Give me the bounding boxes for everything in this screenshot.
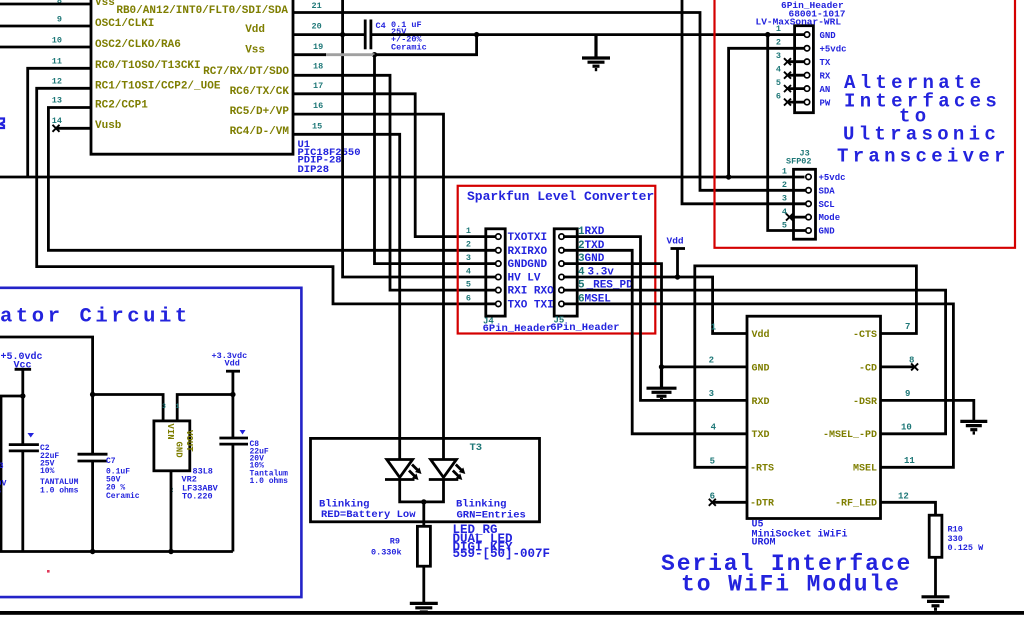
svg-text:2: 2 bbox=[776, 38, 781, 48]
wire U5 pin12 RF_LED to R10 bbox=[881, 502, 936, 515]
svg-text:R10: R10 bbox=[948, 525, 963, 535]
C2 polarity mark bbox=[28, 433, 35, 438]
svg-text:C7: C7 bbox=[106, 457, 116, 466]
svg-text:11: 11 bbox=[52, 57, 62, 67]
wire J5 pin5 _RES_PD to U5 pin10 bbox=[563, 290, 946, 434]
C4 value labels bbox=[376, 20, 427, 53]
junction rail C7 bbox=[90, 549, 95, 554]
svg-text:-MSEL_-PD: -MSEL_-PD bbox=[823, 430, 877, 441]
svg-text:6: 6 bbox=[466, 293, 471, 303]
svg-text:Vdd: Vdd bbox=[245, 24, 265, 36]
junction VIN rail bbox=[90, 392, 95, 397]
svg-text:Sparkfun Level Converter: Sparkfun Level Converter bbox=[467, 189, 654, 204]
svg-text:20: 20 bbox=[312, 22, 322, 32]
svg-text:3: 3 bbox=[776, 51, 781, 61]
label Alternate Interfaces to Ultrasonic Transceiver bbox=[837, 72, 1010, 168]
red origin dot bbox=[47, 570, 50, 573]
J4 pin number labels bbox=[466, 226, 471, 303]
X marks J2 pins 3-6 bbox=[784, 58, 791, 105]
svg-text:1: 1 bbox=[782, 167, 787, 177]
svg-text:1: 1 bbox=[466, 226, 471, 236]
X mark CD bbox=[911, 363, 918, 370]
resistor R10 bbox=[929, 515, 942, 557]
IC U5 MiniSocket iWiFi body bbox=[747, 316, 881, 518]
svg-text:12: 12 bbox=[52, 77, 62, 87]
svg-text:13: 13 bbox=[52, 96, 62, 106]
wire +5vdc long row to J3 pin1 bbox=[0, 176, 805, 179]
svg-text:2: 2 bbox=[782, 180, 787, 190]
svg-text:VIN: VIN bbox=[165, 424, 175, 440]
svg-text:RC7/RX/DT/SDO: RC7/RX/DT/SDO bbox=[203, 66, 289, 78]
ground rail bottom bbox=[0, 550, 233, 553]
red group box level converter bbox=[458, 186, 656, 334]
connector J3 body bbox=[794, 169, 816, 239]
svg-text:RC1/T1OSI/CCP2/_UOE: RC1/T1OSI/CCP2/_UOE bbox=[95, 80, 221, 92]
J2 pin name labels bbox=[820, 31, 847, 109]
capacitor C4 plates bbox=[365, 20, 371, 50]
junction rail VR2 bbox=[168, 549, 173, 554]
blue group box regulator circuit bbox=[0, 288, 301, 597]
label Serial Interface to WiFi Module bbox=[661, 551, 912, 598]
wire VOUT rail bbox=[177, 395, 233, 421]
wire U1 pin11 RC0 net to +5vdc row bbox=[28, 68, 91, 177]
svg-text:SCL: SCL bbox=[819, 200, 835, 210]
wire VIN rail bbox=[93, 395, 164, 421]
capacitor C8 plates bbox=[219, 438, 248, 444]
svg-text:4: 4 bbox=[711, 423, 717, 433]
svg-text:.3: .3 bbox=[0, 462, 4, 471]
J2 name labels bbox=[756, 0, 846, 28]
left edge cut text fragments bbox=[0, 462, 7, 496]
svg-text:GRN=Entries: GRN=Entries bbox=[457, 510, 526, 522]
svg-text:-DTR: -DTR bbox=[750, 499, 774, 510]
wire U1 pin18 RX to J4 pin5 bbox=[293, 75, 496, 290]
red group box Alternate Interfaces bbox=[715, 0, 1016, 248]
no-connect X on pin14 bbox=[53, 125, 60, 132]
left edge blue net label fragment bbox=[0, 119, 4, 129]
wire C8 to rail bbox=[231, 444, 234, 551]
wire along left edge bbox=[0, 396, 2, 552]
C2 labels bbox=[40, 444, 79, 496]
junction +5v row to J2 pin2 drop bbox=[726, 174, 731, 179]
J3 pin number labels bbox=[782, 167, 787, 231]
J5 pin circles bbox=[559, 234, 564, 307]
svg-text:1: 1 bbox=[776, 24, 781, 34]
svg-text:.0V: .0V bbox=[0, 480, 7, 489]
svg-text:RC2/CCP1: RC2/CCP1 bbox=[95, 100, 148, 112]
svg-text:T3: T3 bbox=[470, 442, 483, 454]
junction GND row to J3 pin5 drop bbox=[765, 32, 770, 37]
wire U1 pin19 Vss stub bbox=[293, 53, 326, 56]
svg-text:Vss: Vss bbox=[245, 44, 265, 56]
svg-text:5: 5 bbox=[776, 78, 781, 88]
svg-text:-DSR: -DSR bbox=[853, 397, 877, 408]
svg-text:-CTS: -CTS bbox=[853, 330, 877, 341]
svg-text:1.0 ohms: 1.0 ohms bbox=[40, 487, 79, 496]
wire U1 pin13 RC2 to J4 pin2 bbox=[48, 108, 496, 251]
power symbol +5.0vdc Vcc bbox=[1, 351, 43, 445]
wire U1 pin20 Vdd to C4 bbox=[293, 33, 365, 36]
svg-text:7: 7 bbox=[905, 322, 910, 332]
svg-text:10: 10 bbox=[901, 423, 912, 433]
LED D-red symbol bbox=[385, 460, 422, 481]
svg-text:5: 5 bbox=[710, 457, 715, 467]
svg-text:2: 2 bbox=[709, 356, 714, 366]
J5 pin name labels bbox=[578, 226, 633, 305]
svg-text:3: 3 bbox=[709, 389, 714, 399]
connector J4 body bbox=[486, 229, 505, 316]
wire U1 pin14 Vusb stub bbox=[56, 127, 91, 130]
svg-text:18: 18 bbox=[313, 62, 323, 72]
svg-text:RC6/TX/CK: RC6/TX/CK bbox=[230, 86, 290, 98]
svg-text:6: 6 bbox=[776, 92, 781, 102]
wire U1 pin8 Vss to left edge bbox=[0, 3, 91, 6]
junction VOUT rail at Vdd bbox=[230, 392, 235, 397]
svg-text:12: 12 bbox=[898, 492, 909, 502]
LED D-green symbol bbox=[429, 460, 466, 481]
svg-text:SFP02: SFP02 bbox=[786, 157, 812, 167]
wire GND drop to J3 pin5 bbox=[768, 35, 806, 231]
wire U5 pin9 DSR to ground bbox=[881, 400, 974, 421]
wire U1 pin15 RC4 to LED1 bbox=[293, 134, 400, 459]
J3 pin name labels bbox=[819, 173, 846, 237]
wire R9 to ground bbox=[422, 566, 425, 603]
svg-text:PW: PW bbox=[820, 99, 831, 109]
svg-text:-CD: -CD bbox=[859, 363, 877, 374]
svg-text:RB0/AN12/INT0/FLT0/SDI/SDA: RB0/AN12/INT0/FLT0/SDI/SDA bbox=[116, 5, 288, 17]
svg-text:+5vdc: +5vdc bbox=[820, 45, 847, 55]
ground symbol below U5 GND bbox=[647, 367, 677, 400]
svg-text:-RF_LED: -RF_LED bbox=[835, 499, 877, 510]
wire Vdd rail vertical to J4 pin4 HV bbox=[343, 0, 496, 277]
VR2 rotated pin labels bbox=[165, 424, 194, 459]
svg-text:UROM: UROM bbox=[752, 538, 776, 549]
J2 no-connect stubs pins 3-6 bbox=[788, 60, 805, 63]
svg-text:GND: GND bbox=[819, 227, 836, 237]
svg-text:5: 5 bbox=[782, 221, 787, 231]
VR2 tiny pin numbers bbox=[162, 403, 180, 494]
svg-text:RED=Battery Low: RED=Battery Low bbox=[321, 509, 416, 521]
wire C7 to rail bbox=[91, 461, 94, 552]
svg-text:6Pin_Header: 6Pin_Header bbox=[550, 322, 619, 334]
svg-text:Vdd: Vdd bbox=[752, 329, 770, 341]
svg-text:R9: R9 bbox=[390, 537, 400, 547]
J3 no-connect stub pin4 bbox=[790, 216, 807, 219]
svg-text:OSC1/CLKI: OSC1/CLKI bbox=[95, 18, 154, 30]
svg-text:to WiFi Module: to WiFi Module bbox=[681, 572, 901, 598]
U5 pin name labels bbox=[750, 329, 877, 510]
svg-text:TXD: TXD bbox=[752, 430, 770, 441]
svg-text:0.330k: 0.330k bbox=[371, 548, 402, 558]
U5 pin numbers bbox=[709, 322, 916, 502]
svg-text:10: 10 bbox=[52, 36, 62, 46]
R10 labels bbox=[948, 525, 985, 554]
wire common to R9 bbox=[422, 502, 425, 526]
svg-text:Transceiver: Transceiver bbox=[837, 146, 1010, 168]
svg-text:LV-MaxSonar-WRL: LV-MaxSonar-WRL bbox=[756, 17, 842, 28]
svg-text:Vdd: Vdd bbox=[667, 236, 684, 247]
resistor R9 bbox=[417, 526, 430, 566]
svg-text:19: 19 bbox=[313, 42, 323, 52]
ground symbol right of U5 bbox=[960, 421, 987, 433]
U5 name labels bbox=[752, 520, 848, 549]
svg-text:-RTS: -RTS bbox=[750, 464, 774, 475]
wire C2 to rail bbox=[21, 451, 24, 552]
ground symbol below R9 bbox=[410, 603, 438, 612]
svg-text:1: 1 bbox=[176, 403, 180, 410]
junction Vss node bbox=[372, 52, 377, 57]
svg-text:AN: AN bbox=[820, 85, 831, 95]
svg-text:3: 3 bbox=[466, 253, 471, 263]
svg-text:RXIRXO: RXIRXO bbox=[508, 246, 548, 258]
U1 pin numbers right bbox=[312, 1, 324, 132]
wire GND row from C4 to J2 pin1 bbox=[371, 33, 805, 36]
svg-text:TXO TXI: TXO TXI bbox=[508, 299, 554, 311]
svg-text:C4: C4 bbox=[376, 21, 386, 31]
svg-text:11: 11 bbox=[904, 456, 915, 466]
svg-text:5: 5 bbox=[466, 280, 471, 290]
svg-text:VOUT: VOUT bbox=[184, 430, 194, 452]
wire U1 pin10 OSC2 to left edge bbox=[0, 46, 91, 49]
svg-text:+5vdc: +5vdc bbox=[819, 173, 846, 183]
X mark J3 pin4 bbox=[786, 214, 793, 221]
wire Vss vertical to J4 pin3 GND bbox=[375, 55, 497, 264]
svg-text:OSC2/CLKO/RA6: OSC2/CLKO/RA6 bbox=[95, 39, 181, 51]
wire GND jog down to Vss row bbox=[375, 35, 477, 55]
wire J5 pin1 RXD to U5 pin3 bbox=[563, 237, 747, 401]
J3 pin circles bbox=[806, 174, 811, 233]
svg-text:9: 9 bbox=[905, 389, 910, 399]
svg-text:10%: 10% bbox=[40, 467, 55, 476]
C8 labels bbox=[250, 440, 289, 486]
svg-text:GND: GND bbox=[174, 442, 184, 459]
svg-text:1.0 ohms: 1.0 ohms bbox=[250, 477, 289, 486]
svg-text:Ceramic: Ceramic bbox=[391, 43, 427, 53]
svg-text:MSEL: MSEL bbox=[853, 464, 877, 475]
C8 plus mark bbox=[240, 430, 246, 435]
ground symbol near C4 bbox=[582, 35, 610, 70]
wire J5 pin2 TXD to U5 pin4 bbox=[563, 250, 747, 433]
X mark DTR bbox=[709, 499, 716, 506]
ground symbol below R10 bbox=[922, 597, 950, 609]
svg-text:0.125 W: 0.125 W bbox=[948, 543, 985, 553]
svg-text:Ultrasonic: Ultrasonic bbox=[843, 124, 1000, 146]
svg-text:4: 4 bbox=[782, 207, 787, 217]
wire Vcc feed from left bbox=[0, 337, 93, 454]
svg-text:RX: RX bbox=[820, 72, 831, 82]
svg-text:GND: GND bbox=[752, 363, 770, 374]
svg-text:Vdd: Vdd bbox=[225, 359, 240, 369]
wire Vss gray segment bbox=[325, 53, 375, 56]
svg-text:1: 1 bbox=[711, 323, 717, 333]
svg-text:2: 2 bbox=[466, 240, 471, 250]
svg-text:DIP28: DIP28 bbox=[298, 164, 330, 176]
wire J5 pin6 MSEL to U5 pin11 bbox=[563, 304, 953, 467]
wire U1 pin21 SDA to J3 pin2 bbox=[293, 13, 806, 191]
LED part labels bbox=[453, 523, 551, 561]
power symbol +3.3vdc Vdd bbox=[212, 351, 248, 438]
wire RTS-CTS jumper bbox=[695, 266, 917, 467]
J2 pin circles bbox=[804, 32, 809, 105]
svg-text:RC0/T1OSO/T13CKI: RC0/T1OSO/T13CKI bbox=[95, 60, 201, 72]
svg-text:559-[50]-007F: 559-[50]-007F bbox=[453, 547, 551, 561]
svg-text:RC4/D-/VM: RC4/D-/VM bbox=[230, 126, 290, 138]
wire stub from left edge to Vcc bbox=[0, 395, 23, 398]
junction Vcc stem bbox=[20, 393, 25, 398]
svg-text:GND: GND bbox=[820, 31, 837, 41]
svg-text:Ceramic: Ceramic bbox=[106, 492, 140, 501]
svg-text:16: 16 bbox=[313, 101, 323, 111]
wire +5vdc drop up to J2 pin2 bbox=[729, 48, 805, 177]
wire SCL vertical to J3 pin3 bbox=[682, 0, 806, 204]
wire VR2 GND pin down bbox=[170, 471, 173, 552]
wire U1 pin17 TX to J4 pin1 bbox=[293, 94, 496, 237]
svg-text:SDA: SDA bbox=[819, 186, 836, 196]
Vdd power symbol bbox=[667, 236, 686, 278]
connector J2 6Pin_Header body bbox=[795, 26, 814, 113]
svg-text:3: 3 bbox=[782, 194, 787, 204]
connector J5 body bbox=[554, 229, 577, 316]
wire LED cathodes common bbox=[400, 480, 444, 502]
svg-text:RXD: RXD bbox=[752, 397, 770, 408]
U1 pin numbers left bbox=[52, 0, 62, 126]
junction GND row corner bbox=[474, 32, 479, 37]
U1 name/value label bbox=[298, 139, 361, 176]
wire J5 pin3 GND to U5 pin2 and ground bbox=[563, 264, 747, 367]
J2 pin number labels bbox=[776, 24, 781, 102]
junction Vdd x C4 row bbox=[340, 32, 345, 37]
svg-text:TXOTXI: TXOTXI bbox=[508, 232, 548, 244]
svg-text:HV LV: HV LV bbox=[508, 273, 541, 285]
svg-text:ator Circuit: ator Circuit bbox=[0, 306, 191, 329]
wire U5 pin6 DTR stub bbox=[712, 501, 747, 504]
junction Vdd symbol node bbox=[675, 274, 680, 279]
svg-text:TX: TX bbox=[820, 58, 831, 68]
J4 pin circles bbox=[496, 234, 501, 307]
svg-text:TO.220: TO.220 bbox=[182, 492, 213, 502]
svg-text:9: 9 bbox=[57, 15, 62, 25]
svg-text:Mode: Mode bbox=[819, 213, 841, 223]
junction LED common bbox=[421, 499, 426, 504]
svg-text:21: 21 bbox=[312, 1, 322, 11]
svg-text:Vusb: Vusb bbox=[95, 120, 122, 132]
frame border bottom bbox=[0, 611, 1024, 615]
regulator VR2 body bbox=[154, 421, 190, 471]
wire U1 pin16 RC5 to LED2 bbox=[293, 114, 444, 459]
svg-text:15: 15 bbox=[312, 122, 322, 132]
wire U1 pin9 OSC1 to left edge bbox=[0, 25, 91, 28]
capacitor C2 plates bbox=[9, 445, 39, 451]
svg-text:Vss: Vss bbox=[95, 0, 115, 9]
svg-text:RC5/D+/VP: RC5/D+/VP bbox=[230, 106, 290, 118]
svg-text:4: 4 bbox=[466, 266, 471, 276]
capacitor C7 plates bbox=[78, 454, 108, 461]
svg-text:17: 17 bbox=[313, 81, 323, 91]
wire R10 to ground bbox=[934, 557, 937, 596]
C7 labels bbox=[106, 457, 140, 501]
IC U1 PIC18F2550 body bbox=[91, 0, 293, 154]
J4/J5 row labels bbox=[508, 232, 555, 311]
wire J5 pin4 3.3v to U5 pin1 Vdd bbox=[563, 277, 747, 334]
svg-text:RXI RXO: RXI RXO bbox=[508, 286, 555, 298]
junction U5 GND node bbox=[659, 364, 664, 369]
wire U1 pin12 RC1 to J4 pin6 bbox=[37, 88, 496, 304]
LED group box T3 bbox=[311, 438, 540, 521]
svg-text:GNDGND: GNDGND bbox=[508, 259, 548, 271]
svg-text:6Pin_Header: 6Pin_Header bbox=[483, 323, 552, 335]
VR2 labels bbox=[182, 467, 219, 502]
svg-text:4: 4 bbox=[776, 65, 781, 75]
svg-text:3: 3 bbox=[162, 403, 166, 410]
wire U5 pin8 CD stub bbox=[881, 365, 915, 368]
